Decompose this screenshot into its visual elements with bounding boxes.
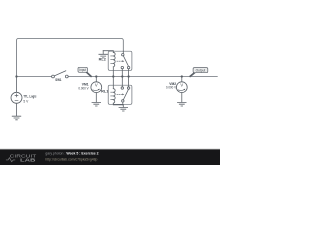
svg-text:LAB: LAB <box>20 158 36 163</box>
relay RL2 coil bottom pin <box>112 67 114 77</box>
svg-text:gary.photon : Week 5 : Exercis: gary.photon : Week 5 : Exercise 2 <box>45 152 98 156</box>
voltmeter VM2 <box>176 77 187 103</box>
label VM1 0.000 V <box>78 82 89 90</box>
footer logo squiggle LAB <box>6 158 36 163</box>
svg-text:RL2: RL2 <box>99 57 106 61</box>
relay RL1 coil <box>113 89 115 104</box>
footer bar <box>0 148 220 151</box>
ground for VM1 <box>92 102 101 106</box>
voltmeter VM1 <box>91 77 102 103</box>
svg-text:http://circuitlab.com/c76pka5v: http://circuitlab.com/c76pka5vg48p <box>45 158 97 162</box>
ground for RL1 <box>119 105 128 111</box>
label VM2 0.000 V <box>166 82 177 90</box>
wire main horizontal net right of SW1 <box>68 76 217 78</box>
svg-text:SW1: SW1 <box>55 78 61 82</box>
svg-text:TTL_Logic: TTL_Logic <box>23 95 36 99</box>
svg-text:5 V: 5 V <box>23 100 28 104</box>
relay RL1 switch common pin and blade <box>122 90 129 105</box>
svg-text:V: V <box>180 82 183 87</box>
ground for V1 <box>12 116 21 120</box>
svg-text:0.000 V: 0.000 V <box>166 86 177 90</box>
relay RL2 switch common pin and blade <box>122 51 129 66</box>
svg-text:Input: Input <box>79 68 86 72</box>
relay RL2 throw contacts and pins <box>121 66 130 76</box>
wire top loop from left rail to relay RL2 switch common <box>17 39 124 77</box>
relay RL2 mechanical link dashes with arrow <box>117 60 124 62</box>
label TTL_Logic 5 V <box>23 95 36 104</box>
junction node dots <box>15 75 183 77</box>
switch SW1 <box>52 71 69 78</box>
relay RL1 throw contacts and pins <box>121 77 130 90</box>
svg-text:Output: Output <box>196 69 206 73</box>
node flag Output <box>190 68 208 77</box>
relay RL1 coil bottom wire to ground <box>113 103 123 105</box>
relay RL1 coil top pin from wire <box>112 77 114 89</box>
svg-text:RL1: RL1 <box>101 90 108 94</box>
voltage source V1 TTL_Logic <box>11 77 22 117</box>
node flag Input <box>78 67 91 76</box>
wire main horizontal net left of SW1 <box>17 76 52 78</box>
relay RL2 coil top wire to ground <box>103 51 113 53</box>
svg-text:0.000 V: 0.000 V <box>78 86 89 90</box>
ground for VM2 <box>178 102 187 106</box>
relay RL2 (upper) box <box>108 51 132 70</box>
svg-text:V: V <box>95 82 98 87</box>
ground for RL2 coil <box>99 51 108 58</box>
relay RL2 coil <box>113 52 115 67</box>
relay RL1 mechanical link dashes with arrow <box>117 94 124 96</box>
relay RL1 (lower) box <box>108 85 132 104</box>
